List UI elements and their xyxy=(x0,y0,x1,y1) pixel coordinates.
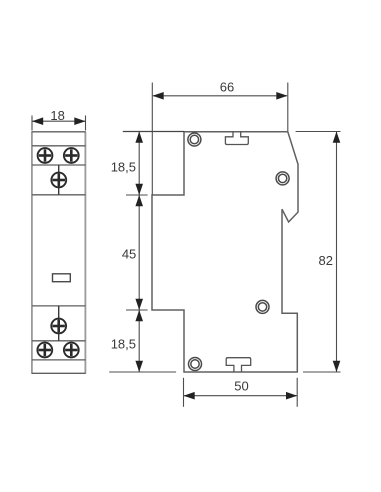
front view bottom edge xyxy=(32,372,86,374)
front view section line 1 xyxy=(32,145,86,147)
front view right edge xyxy=(84,132,86,373)
side view body outline xyxy=(152,132,298,372)
front view left edge xyxy=(31,132,33,373)
svg-text:82: 82 xyxy=(319,253,333,268)
svg-text:18,5: 18,5 xyxy=(111,160,136,175)
screw terminal upper-middle xyxy=(51,173,66,188)
front view section line 3 xyxy=(32,194,86,196)
screw terminal top-left xyxy=(38,148,53,163)
top mounting clip xyxy=(225,132,248,145)
svg-text:45: 45 xyxy=(122,247,136,262)
front view bottom centerline xyxy=(58,306,60,341)
screw terminal bottom-right xyxy=(64,343,79,358)
front view section line 6 xyxy=(32,359,86,361)
dimension 18 (front view width) xyxy=(32,116,86,131)
dimension 50 (side view bottom width) xyxy=(184,378,298,407)
screw terminal bottom-left xyxy=(37,343,52,358)
screw terminal lower-middle xyxy=(51,319,66,334)
rivet hole lower-right xyxy=(256,300,269,313)
left dimension arrowheads xyxy=(135,132,143,373)
front view top centerline xyxy=(58,165,60,195)
front view section line 4 xyxy=(32,305,86,307)
dimension 66 (side view top width) xyxy=(152,83,287,196)
svg-text:66: 66 xyxy=(220,80,234,95)
left dimension line xyxy=(138,132,140,372)
left dimension stack: extension line top (shared with side top edge) xyxy=(123,131,184,133)
bottom mounting clip xyxy=(226,358,251,372)
indicator window xyxy=(53,274,71,282)
svg-text:50: 50 xyxy=(234,379,248,394)
left dimension extension line at y=195 xyxy=(126,194,148,196)
front view section line 2 xyxy=(32,164,86,166)
screw terminal top-right xyxy=(64,148,79,163)
rivet hole bottom-left xyxy=(189,358,202,371)
svg-text:18: 18 xyxy=(50,108,64,123)
svg-text:18,5: 18,5 xyxy=(111,337,136,352)
dimension 82 (side view height) xyxy=(296,132,341,373)
front view top edge xyxy=(32,131,86,133)
left dimension extension line at y=310 xyxy=(126,309,148,311)
left dimension extension line at y=372 xyxy=(109,371,176,373)
rivet hole upper-right xyxy=(276,172,289,185)
rivet hole top-left xyxy=(188,133,201,146)
front view section line 5 xyxy=(32,340,86,342)
